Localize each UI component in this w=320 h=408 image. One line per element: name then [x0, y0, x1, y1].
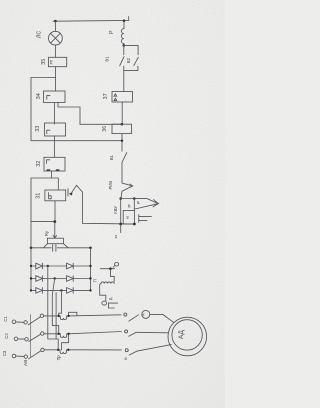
contact В2	[124, 45, 139, 70]
svg-text:зч: зч	[114, 235, 118, 239]
resistor R	[47, 238, 63, 244]
svg-text:АД: АД	[178, 330, 185, 339]
svg-text:34: 34	[36, 93, 42, 99]
svg-text:ув: ув	[127, 204, 131, 208]
node rail right	[133, 223, 136, 226]
contact В pole 3	[125, 345, 171, 356]
transformer Тр winding 2	[44, 332, 121, 338]
wire series step row2	[62, 334, 69, 350]
contact РИВ barb	[129, 184, 132, 188]
relay coil 34	[44, 91, 66, 102]
wire bridge left rail	[30, 248, 32, 291]
diode D4 row2 right	[67, 276, 91, 282]
node bus-right junction	[123, 19, 126, 22]
svg-text:37: 37	[103, 93, 109, 99]
switch АВ pole 2	[18, 332, 44, 342]
resistor R feed	[54, 222, 56, 238]
diode D2 row1 right	[67, 263, 91, 269]
svg-text:РП: РП	[49, 59, 53, 64]
lamp ЛС	[49, 31, 63, 45]
wire bridge right rail	[90, 248, 92, 291]
svg-text:33: 33	[35, 126, 41, 132]
node transformer taps	[57, 315, 70, 351]
node above 36	[121, 123, 124, 126]
node left of Р contact	[119, 197, 122, 200]
wire 32 bottom tee	[31, 171, 58, 190]
svg-text:кв: кв	[126, 216, 130, 219]
terminal С1	[12, 320, 16, 324]
node bridge rail right	[89, 247, 92, 250]
wire left rail B	[30, 178, 32, 248]
diode D6 row3 right	[67, 288, 91, 294]
terminal О lower of П circuit	[102, 301, 107, 305]
wire lamp to relay 35	[54, 45, 56, 57]
contact К bar	[67, 189, 69, 197]
relay coil 31	[45, 190, 66, 201]
svg-text:36: 36	[102, 126, 108, 132]
contact В pole 1	[124, 313, 139, 321]
diode D5 row3 left	[31, 288, 67, 294]
node below coil Р	[123, 44, 126, 47]
wire R right leg	[63, 244, 68, 248]
wire П bottom step	[100, 283, 106, 300]
wire bridge top rail	[31, 247, 91, 249]
wire 31 to R junction	[54, 201, 56, 222]
svg-text:В2: В2	[126, 57, 131, 63]
wire left feedback branch	[31, 78, 122, 141]
svg-text:РИВ: РИВ	[108, 181, 113, 190]
wire top bus	[53, 17, 129, 22]
wire 33 to 32	[53, 136, 55, 157]
contact В1 upper	[120, 45, 124, 70]
svg-text:Р: Р	[136, 201, 141, 204]
wire 36 down	[121, 134, 123, 152]
terminal С3	[12, 354, 16, 358]
marks inside 37	[114, 94, 117, 101]
relay box 36	[112, 124, 132, 133]
wire R left leg	[43, 244, 47, 248]
relay coil 35	[48, 57, 66, 66]
svg-text:КВУ: КВУ	[113, 206, 118, 214]
svg-text:ЛС: ЛС	[37, 31, 43, 38]
contact mark inside 32	[47, 160, 50, 164]
wire stub down node ЗЧ	[120, 224, 122, 233]
relay coil 32	[44, 157, 65, 171]
contact В pole 2	[125, 330, 169, 336]
wire terminal link	[113, 266, 115, 268]
wire branch 34 to 36	[58, 102, 122, 124]
connector socket pins	[139, 215, 152, 223]
wire phase C drop	[59, 290, 62, 316]
wire 37 to 36	[121, 102, 123, 124]
wire series step row1	[69, 312, 77, 316]
relay coil 33	[45, 123, 66, 136]
wire 35 to 34	[55, 67, 57, 91]
wire КВУ left branch	[120, 199, 122, 225]
contact К blade	[72, 185, 83, 193]
node rail left	[119, 223, 122, 226]
ammeter А	[142, 310, 150, 318]
contact mark inside 34	[47, 96, 50, 100]
svg-text:С1: С1	[3, 316, 8, 322]
wire extra tap drop	[55, 293, 57, 340]
marks inside 32 bottom	[47, 169, 60, 171]
transformer Тр winding 3	[44, 350, 121, 354]
node bridge rail left	[30, 247, 33, 250]
svg-text:В1: В1	[105, 56, 110, 62]
svg-text:В1: В1	[109, 154, 114, 160]
wire К to bottom rail	[82, 192, 134, 224]
contact К arrowhead	[69, 192, 73, 196]
relay box 37	[112, 92, 133, 103]
diode D1 row1 left	[31, 263, 67, 269]
coil КВУ box	[123, 211, 134, 225]
motor АД inner	[172, 320, 202, 350]
terminal С2	[14, 337, 18, 341]
wire ammeter to motor	[150, 314, 174, 322]
node R junction	[53, 220, 56, 223]
capacitor C plates	[53, 245, 56, 252]
node П junction	[109, 267, 112, 270]
wire lamp drop	[54, 21, 56, 31]
contact В1 lower	[122, 153, 127, 182]
wire phase A drop	[48, 266, 58, 350]
contact mark inside 33	[47, 130, 50, 134]
node bus-left junction	[54, 20, 57, 23]
wire П top	[100, 268, 114, 270]
wire phase B drop	[52, 279, 58, 334]
switch АВ pole 1	[16, 314, 44, 325]
wire into КВУ box	[133, 209, 135, 211]
svg-text:32: 32	[36, 161, 42, 167]
svg-text:Rу: Rу	[44, 230, 49, 236]
svg-text:35: 35	[41, 59, 47, 65]
svg-text:В: В	[123, 357, 128, 360]
node right of Р contact	[133, 197, 136, 200]
wire 34 to 33	[53, 102, 55, 124]
svg-text:П: П	[93, 279, 98, 282]
wire П step	[110, 269, 114, 282]
svg-text:С2: С2	[4, 333, 9, 339]
wire bus to coil Р	[123, 21, 125, 29]
coil П	[101, 282, 114, 283]
connector pins lower	[109, 303, 118, 308]
coil Р	[121, 29, 124, 46]
diode D3 row2 left	[31, 276, 67, 282]
switch АВ linkage	[30, 315, 32, 358]
motor АД outer	[168, 317, 207, 356]
terminal О upper of П circuit	[115, 263, 119, 266]
node bridge rows	[30, 265, 92, 292]
contact Р arrow	[134, 199, 158, 210]
wire across	[121, 198, 135, 200]
node hold-circuit join	[121, 140, 123, 142]
switch АВ pole 3	[16, 348, 44, 359]
wire В1 В2 rejoin	[124, 70, 138, 91]
contact mark inside 31	[49, 193, 52, 199]
svg-text:С3: С3	[2, 350, 7, 356]
svg-text:31: 31	[36, 193, 42, 199]
svg-text:АВ: АВ	[23, 360, 28, 366]
contact РИВ	[121, 181, 133, 198]
wire rail tee to R junction	[31, 221, 55, 223]
svg-text:Тр: Тр	[56, 355, 61, 361]
transformer Тр winding 1	[44, 315, 121, 320]
